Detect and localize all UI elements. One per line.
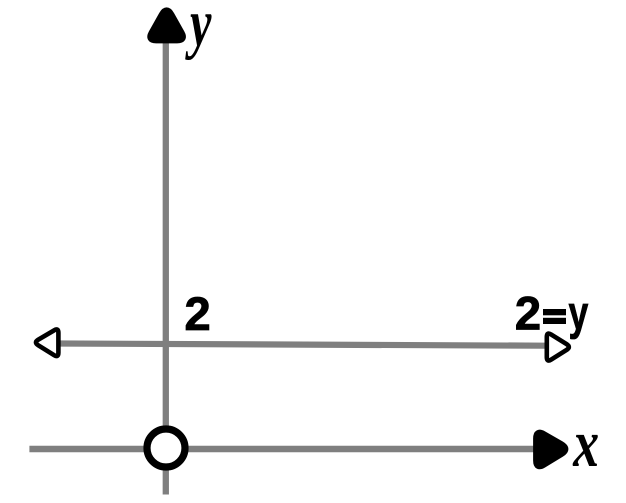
y-axis arrowhead (filled, up) bbox=[151, 11, 183, 40]
y-axis line bbox=[163, 38, 169, 495]
x-axis line bbox=[29, 446, 534, 453]
node origin open circle bbox=[147, 429, 185, 467]
svg-text:2: 2 bbox=[515, 287, 541, 340]
svg-text:y: y bbox=[185, 0, 212, 60]
wire line y=2 bbox=[57, 344, 545, 346]
svg-text:x: x bbox=[572, 406, 599, 481]
right arrowhead of y=2 line (hollow) bbox=[547, 334, 569, 361]
x-axis arrowhead (filled, right) bbox=[537, 433, 565, 466]
svg-text:2: 2 bbox=[184, 288, 210, 341]
left arrowhead of y=2 line (hollow) bbox=[36, 329, 58, 356]
svg-text:y: y bbox=[569, 286, 589, 339]
label = of equation 2=y (lower bar) bbox=[543, 318, 566, 324]
label = of equation 2=y (upper bar) bbox=[543, 309, 566, 315]
